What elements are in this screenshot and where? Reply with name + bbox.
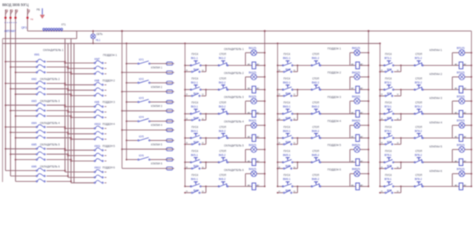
wire rung ВК6 feed (185, 185, 191, 187)
junction dot busL rail ВМ (277, 43, 279, 45)
connector pin valve3 L (165, 100, 174, 103)
svg-text:КУ6: КУ6 (139, 154, 144, 158)
wire pan1 phase3 feed (71, 73, 94, 75)
svg-text:14: 14 (202, 191, 204, 193)
wire cooler1 phase2 feed (11, 66, 37, 68)
junction dot pan4 ph3 (70, 138, 72, 140)
junction dot coil ВП1 rail (471, 65, 473, 67)
wire rung ВП6 feed (380, 185, 385, 187)
pushbutton PUSK ВМ5-1 (282, 158, 293, 163)
PE conductor left vertical (2, 39, 4, 182)
junction dot pan5 ph3 (70, 160, 72, 162)
wire cooler6 phase1 feed (6, 170, 37, 172)
svg-text:14: 14 (397, 143, 399, 145)
pushbutton STOP ВК2-2 (218, 85, 228, 90)
label STOP ВМ4-2 (312, 126, 320, 133)
pushbutton STOP ВК6-2 (218, 182, 228, 187)
wire cooler2 phase1 out (47, 82, 66, 84)
junction dot busL rail ВК (184, 43, 186, 45)
wire pan4 phase3 out (105, 138, 107, 140)
svg-text:PE: PE (37, 8, 41, 11)
junction dot pan1 ph3 (70, 73, 72, 75)
wire phase L2 vertical (10, 10, 12, 177)
contact KM12.3 (94, 180, 103, 183)
wire pan4 phase2 out (105, 133, 107, 135)
coil ВМ6 (356, 183, 360, 190)
wire coil ВП5 out (463, 161, 472, 163)
lamp ВП6(L) (459, 171, 465, 177)
wire rung ВК4 to coil (228, 137, 252, 139)
svg-text:ОХЛАДИТЕЛЬ 2: ОХЛАДИТЕЛЬ 2 (40, 77, 60, 81)
wire rung ВК3 feed (185, 113, 191, 115)
wire valve3 N return (122, 110, 166, 112)
svg-text:13: 13 (186, 167, 188, 169)
label STOP ВК1-2 (219, 53, 227, 60)
wire pan1 phase1 out (105, 62, 107, 64)
svg-text:13: 13 (278, 118, 280, 120)
contact KU6 (138, 157, 150, 160)
pushbutton STOP ВМ2-2 (311, 85, 321, 90)
junction dot cooler3 out1 (64, 104, 66, 106)
svg-text:ВП3-1: ВП3-1 (385, 106, 393, 109)
svg-text:ХТ1: ХТ1 (61, 24, 66, 27)
wire cooler2 phase3 out (47, 93, 72, 95)
wire valve6 to pin (150, 159, 166, 161)
pushbutton PUSK ВП2-1 (384, 85, 394, 90)
junction dot coil ВП3 rail (471, 113, 473, 115)
pushbutton PUSK ВК3-1 (190, 109, 201, 114)
svg-text:ВМ3: ВМ3 (286, 117, 292, 120)
wire cooler2 phase2 feed (11, 88, 37, 90)
wire cooler4 phase1 feed (6, 126, 37, 128)
selfhold branch ВМ4 (277, 138, 298, 145)
svg-text:АВТОМАТ: АВТОМАТ (4, 30, 16, 33)
svg-text:ВК6-2: ВК6-2 (219, 178, 226, 181)
wire cooler6 phase3 out (47, 180, 72, 182)
rail L panel2 x126.5 (126, 43, 128, 159)
label STOP ВМ6-2 (312, 174, 320, 181)
wire rung ВК5 to coil (228, 161, 252, 163)
wire rung ВМ6 feed (278, 185, 283, 187)
coil ВМ5 (356, 159, 360, 166)
wire rung ВК1 to coil (228, 64, 252, 66)
contact KM8.2 (94, 88, 103, 91)
junction dot rail ВК5 (184, 161, 186, 163)
wire cooler5 phase2 out (47, 153, 69, 155)
wire rung ВК1 node (201, 64, 219, 66)
junction dot pan1 ph2 (67, 68, 69, 70)
junction dot lamp ВМ2 rail (368, 76, 370, 78)
svg-text:ОХЛАДИТЕЛЬ 3: ОХЛАДИТЕЛЬ 3 (40, 99, 60, 103)
svg-text:ВП3: ВП3 (387, 117, 392, 120)
contact selfhold ВК5 (191, 166, 200, 169)
terminal XT1 pin 4 (51, 28, 53, 31)
svg-text:КЛАПАН 3: КЛАПАН 3 (151, 105, 163, 108)
pushbutton PUSK ВМ2-1 (282, 85, 293, 90)
junction dot bus-HL1 (92, 30, 94, 32)
wire rung ВК1 feed (185, 64, 191, 66)
wire rung ВМ3 node (293, 113, 312, 115)
wire pan6 phase3 feed (71, 182, 94, 184)
junction dot lamp ВК2 rail (264, 76, 266, 78)
svg-text:ВП3(Л): ВП3(Л) (457, 96, 465, 99)
svg-text:HL1: HL1 (96, 39, 101, 42)
wire coil ВК6 out (256, 185, 265, 187)
wire cooler2 phase3 feed (16, 93, 37, 95)
svg-text:ПУСК: ПУСК (385, 174, 392, 177)
svg-text:СТОП: СТОП (219, 77, 226, 80)
wire pan5 phase2 feed (68, 155, 94, 157)
svg-text:КМ8: КМ8 (95, 79, 100, 82)
svg-text:ВК4: ВК4 (194, 141, 199, 144)
junction dot pan5 ph1 (64, 149, 66, 151)
junction node ВМ2 (297, 89, 299, 91)
label STOP ВК2-2 (219, 77, 227, 84)
wire cooler6 phase1 out (47, 170, 66, 172)
pushbutton STOP ВП5-2 (414, 158, 423, 163)
wire rung ВМ1 feed (278, 64, 283, 66)
pushbutton STOP ВП6-2 (414, 182, 423, 187)
terminal XT1 pin 6 (56, 28, 58, 31)
pushbutton PUSK ВП6-1 (384, 182, 394, 187)
wire coil ВП6 out (463, 185, 472, 187)
pushbutton STOP ВП4-2 (414, 133, 423, 138)
junction dot rail ВП1 (379, 65, 381, 67)
svg-text:КУ2: КУ2 (139, 77, 144, 81)
svg-text:ПОДДОН 6: ПОДДОН 6 (103, 167, 116, 170)
svg-text:СТОП: СТОП (219, 53, 226, 56)
junction dot cooler5 ph1 (5, 148, 7, 150)
svg-text:ВП5-1: ВП5-1 (385, 154, 393, 157)
lamp ВМ2(L) (354, 74, 360, 80)
label KM2 OKHLADITEL 2 (32, 77, 61, 81)
wire valve6 N return (122, 167, 166, 169)
junction dot cooler4 ph2 (10, 132, 12, 134)
junction dot cooler4 out1 (64, 126, 66, 128)
label PUSK ВМ3-1 (283, 102, 291, 109)
lamp branch ВМ6 (350, 174, 369, 187)
svg-text:СТОП: СТОП (415, 150, 422, 153)
svg-text:СТОП: СТОП (415, 53, 422, 56)
label STOP ВМ1-2 (312, 53, 320, 60)
lamp branch ВК5 (245, 150, 264, 163)
pushbutton PUSK ВМ6-1 (282, 182, 293, 187)
lamp ВП5(L) (459, 147, 465, 153)
wire pan6 phase2 feed (68, 176, 94, 178)
svg-text:КЛАПАН 5: КЛАПАН 5 (151, 143, 163, 146)
selfhold branch ВП5 (379, 162, 401, 169)
distribution rail x68 (67, 43, 69, 177)
svg-text:13: 13 (381, 191, 383, 193)
selfhold branch ВП4 (379, 138, 401, 145)
contact KM3.3 (36, 114, 45, 117)
wire pan1 phase1 feed (65, 62, 94, 64)
svg-text:ВП2: ВП2 (387, 93, 392, 96)
label STOP ВК6-2 (219, 174, 227, 181)
wire valve3 to pin (150, 101, 166, 103)
svg-text:14: 14 (293, 191, 295, 193)
junction dot cooler3 ph1 (5, 104, 7, 106)
selfhold branch ВП3 (379, 114, 401, 121)
label KM12 PODDON 6 (95, 167, 116, 170)
svg-text:14: 14 (293, 167, 295, 169)
wire rung ВК5 feed (185, 161, 191, 163)
selfhold branch ВК1 (184, 65, 206, 72)
junction dot rail ВК3 (184, 113, 186, 115)
wire cooler4 phase1 out (47, 126, 66, 128)
wire cooler4 phase3 out (47, 137, 72, 139)
lamp ВП1(L) (459, 50, 465, 56)
wire pan5 phase1 feed (65, 149, 94, 151)
junction node ВП5 (400, 161, 402, 163)
label PUSK ВМ4-1 (283, 126, 291, 133)
contact KM12.1 (94, 170, 103, 173)
svg-text:СТОП: СТОП (312, 102, 319, 105)
svg-text:КЛАПАН 5: КЛАПАН 5 (430, 145, 443, 149)
junction dot rail126 valve4 (126, 120, 128, 122)
svg-text:СТОП: СТОП (312, 53, 319, 56)
label PUSK ВК4-1 (191, 126, 199, 133)
breaker QF1 pole L2 (10, 10, 12, 15)
contact selfhold ВМ2 (283, 93, 292, 96)
contact KU3 (138, 99, 150, 102)
svg-text:ПУСК: ПУСК (385, 150, 392, 153)
svg-text:КЛАПАН 1: КЛАПАН 1 (430, 48, 443, 52)
label STOP ВМ3-2 (312, 102, 320, 109)
wire cooler5 phase1 out (47, 148, 66, 150)
svg-text:ПОДДОН 2: ПОДДОН 2 (328, 71, 342, 75)
wire cooler1 phase3 feed (16, 71, 37, 73)
svg-text:14: 14 (397, 167, 399, 169)
junction dot rail ВМ5 (277, 161, 279, 163)
contact KM8.1 (94, 82, 103, 85)
junction dot rail122 valve2 (121, 91, 123, 93)
label KM4 OKHLADITEL 4 (32, 121, 61, 125)
wire cooler3 phase3 feed (16, 115, 37, 117)
pushbutton PUSK ВП4-1 (384, 133, 394, 138)
junction node ВП2 (400, 89, 402, 91)
junction dot cooler1 ph2 (10, 66, 12, 68)
contact KM9.2 (94, 110, 103, 113)
junction dot cooler4 out3 (70, 137, 72, 139)
svg-text:ВМ4-1: ВМ4-1 (283, 130, 291, 133)
wire pan2 phase1 out (105, 84, 107, 86)
wire riser x76.7 to bus N (76, 31, 78, 39)
svg-text:ВП1: ВП1 (387, 68, 392, 71)
svg-text:13: 13 (278, 70, 280, 72)
svg-text:ПОДДОН 4: ПОДДОН 4 (328, 119, 342, 123)
svg-text:СТОП: СТОП (415, 77, 422, 80)
junction dot lamp ВП5 rail (471, 149, 473, 151)
contact selfhold ВК1 (191, 69, 200, 72)
svg-text:ПЧ: ПЧ (30, 19, 34, 21)
svg-text:14: 14 (293, 143, 295, 145)
junction node ВК6 (205, 186, 207, 188)
svg-text:ПОДДОН 5: ПОДДОН 5 (328, 143, 342, 147)
pushbutton STOP ВК4-2 (218, 133, 228, 138)
wire coil ВМ2 out (359, 89, 368, 91)
coil ВК1 (252, 62, 256, 69)
contact KM2.1 (36, 81, 45, 84)
pushbutton STOP ВМ4-2 (311, 133, 321, 138)
label STOP ВП4-2 (415, 126, 423, 133)
terminal XT1 pin 7 (58, 28, 60, 31)
wire pan5 phase3 feed (71, 160, 94, 162)
svg-text:СТОП: СТОП (219, 102, 226, 105)
svg-text:КМ10: КМ10 (95, 123, 102, 126)
connector pin valve1 L (165, 62, 174, 65)
wire rung ВМ4 node (293, 137, 312, 139)
wire pan1 phase2 feed (68, 67, 94, 69)
wire cooler3 phase1 out (47, 104, 66, 106)
wire rung ВМ6 to coil (321, 185, 356, 187)
svg-text:ВК6(Л): ВК6(Л) (249, 168, 257, 171)
junction dot cooler4 out2 (67, 132, 69, 134)
lamp branch ВК6 (245, 174, 264, 187)
svg-text:ВП6(Л): ВП6(Л) (457, 168, 465, 171)
wire pan3 phase2 out (105, 111, 107, 113)
wire rung ВК6 node (201, 185, 219, 187)
svg-text:СТОП: СТОП (415, 174, 422, 177)
junction dot rail126 valve3 (126, 101, 128, 103)
wire pan6 phase1 feed (65, 171, 94, 173)
svg-text:СТОП: СТОП (312, 126, 319, 129)
svg-text:ВП6-2: ВП6-2 (415, 178, 423, 181)
wire cooler3 phase2 feed (11, 110, 37, 112)
svg-text:13: 13 (278, 143, 280, 145)
connector pin valve5 L (165, 139, 174, 142)
junction dot rail ВМ2 (277, 89, 279, 91)
junction dot coil ВМ4 rail (368, 137, 370, 139)
junction dot cooler6 out2 (67, 175, 69, 177)
junction dot rail ВК1 (184, 65, 186, 67)
lamp ВК4(L) (251, 122, 257, 128)
coil ВМ1 (356, 62, 360, 69)
selfhold branch ВМ5 (277, 162, 298, 169)
svg-text:КУ4: КУ4 (139, 115, 144, 119)
wire coil ВП2 out (463, 89, 472, 91)
selfhold branch ВП6 (379, 186, 401, 193)
svg-text:ПОДДОН 5: ПОДДОН 5 (103, 145, 116, 148)
terminal XT1 pin 5 (53, 28, 55, 31)
svg-text:ВК1: ВК1 (194, 68, 199, 71)
wire rung ВК3 node (201, 113, 219, 115)
junction dot cooler1 out2 (67, 66, 69, 68)
coil ВК5 (252, 159, 256, 166)
coil ВМ4 (356, 135, 360, 142)
label STOP ВП1-2 (415, 53, 423, 60)
label STOP ВП2-2 (415, 77, 423, 84)
label PUSK ВП3-1 (385, 102, 393, 109)
contact KM2.2 (36, 86, 45, 89)
label PUSK ВП2-1 (385, 77, 393, 84)
wire rung ВК4 node (201, 137, 219, 139)
wire rung ВП2 to coil (424, 89, 460, 91)
lamp HL1 SET wire from bus (92, 31, 94, 34)
contact KM1.1 (36, 59, 45, 62)
contact KM9.3 (94, 115, 103, 118)
coil ВК6 (252, 183, 256, 190)
wire rung ВП2 feed (380, 89, 385, 91)
label STOP ВК4-2 (219, 126, 227, 133)
wire phase L3 vertical (15, 10, 17, 182)
wire rung ВК2 to coil (228, 89, 252, 91)
junction dot L2 (9, 17, 11, 19)
svg-text:ПОДДОН 4: ПОДДОН 4 (103, 123, 116, 126)
junction dot L3 (14, 17, 16, 19)
wire rung ВМ3 feed (278, 113, 283, 115)
junction dot lamp ВП1 rail (471, 52, 473, 54)
svg-text:ВК6-1: ВК6-1 (191, 178, 198, 181)
breaker QF1 pole L3 (15, 10, 17, 15)
lamp HL1 wire to bus L (92, 39, 94, 44)
junction dot lamp ВМ1 rail (368, 52, 370, 54)
contact selfhold ВП4 (385, 142, 393, 145)
svg-text:ВМ3-2: ВМ3-2 (312, 106, 320, 109)
breaker QF1 pole L1 (5, 10, 7, 15)
lamp ВК1(L) (251, 50, 257, 56)
terminal XT1 pin 3 (48, 28, 50, 31)
junction dot lamp ВП6 rail (471, 173, 473, 175)
svg-text:СТОП: СТОП (312, 77, 319, 80)
junction dot rail ВМ1 (277, 65, 279, 67)
label PUSK ВК2-1 (191, 77, 199, 84)
lamp branch ВП3 (452, 101, 471, 114)
junction dot cooler5 ph2 (10, 153, 12, 155)
junction dot pan1 ph1 (64, 62, 66, 64)
wire pan2 phase2 out (105, 89, 107, 91)
wire rung ВП4 feed (380, 137, 385, 139)
box top line y38.6 (3, 38, 77, 40)
connector pin valve6 N (165, 167, 174, 170)
lamp branch ВП1 (452, 53, 471, 66)
wire coil ВП3 out (463, 113, 472, 115)
junction dot lamp ВК6 rail (264, 173, 266, 175)
junction node ВП6 (400, 186, 402, 188)
svg-text:ОХЛАДИТЕЛЬ 5: ОХЛАДИТЕЛЬ 5 (40, 143, 60, 147)
svg-text:14: 14 (397, 70, 399, 72)
contact KM6.3 (36, 179, 45, 182)
wire rung ВП3 node (394, 113, 415, 115)
svg-text:ВМ6-2: ВМ6-2 (312, 178, 320, 181)
label STOP ВМ5-2 (312, 150, 320, 157)
wire cooler2 phase2 out (47, 88, 69, 90)
svg-text:ВП3-2: ВП3-2 (415, 106, 423, 109)
wire coil ВМ1 out (359, 64, 368, 66)
svg-text:ВП1-1: ВП1-1 (385, 57, 393, 60)
svg-text:13: 13 (186, 191, 188, 193)
pushbutton PUSK ВМ3-1 (282, 109, 293, 114)
junction dot lamp ВП3 rail (471, 100, 473, 102)
junction dot lamp ВП4 rail (471, 124, 473, 126)
svg-text:QF1: QF1 (21, 25, 27, 29)
svg-text:ВП4-2: ВП4-2 (415, 130, 423, 133)
svg-text:ВМ2-1: ВМ2-1 (283, 81, 291, 84)
svg-text:ВК1-1: ВК1-1 (191, 57, 198, 60)
label PUSK ВП6-1 (385, 174, 393, 181)
wire pan4 phase1 feed (65, 127, 94, 129)
label PUSK ВМ2-1 (283, 77, 291, 84)
contact selfhold ВМ4 (283, 142, 292, 145)
wire pan3 phase3 feed (71, 116, 94, 118)
contact KM10.1 (94, 126, 103, 129)
junction dot pan3 ph1 (64, 106, 66, 108)
svg-text:ПУСК: ПУСК (192, 102, 199, 105)
junction dot lamp ВП2 rail (471, 76, 473, 78)
selfhold branch ВК5 (184, 162, 206, 169)
svg-text:ВМ5-1: ВМ5-1 (283, 154, 291, 157)
svg-text:ПУСК: ПУСК (385, 53, 392, 56)
